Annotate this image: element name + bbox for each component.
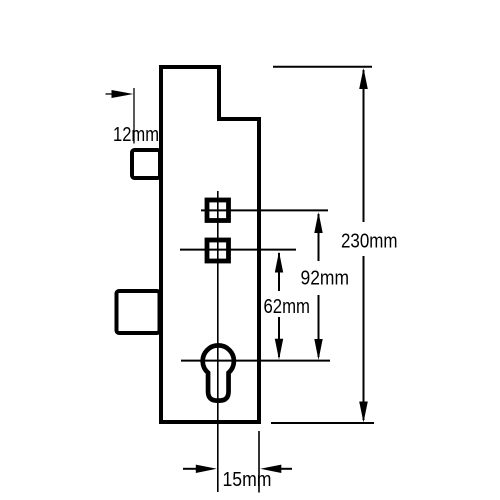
12mm extension line [133,88,135,144]
top extension line [273,66,372,68]
dimension line through spindle hole 1 [201,209,328,211]
bottom extension line [271,422,374,424]
12mm arrow [106,90,134,98]
dimension 62mm arrows [275,252,283,360]
dimension 92mm arrows [314,212,322,360]
vertical center line [217,191,219,492]
dimension line through euro cylinder center [181,360,330,362]
spindle hole 2 (square) [207,240,229,261]
right lower extension line [258,431,260,493]
spindle hole 1 (square) [207,200,229,221]
lock body outline [161,67,259,422]
latch bolt [132,150,160,178]
deadbolt [117,291,160,333]
svg-text:15mm: 15mm [223,469,272,491]
svg-text:62mm: 62mm [264,296,311,318]
dimension 15mm arrows [183,465,292,473]
svg-text:92mm: 92mm [301,267,350,289]
dimension line through spindle hole 2 [180,249,296,251]
dimension 230mm vertical line with arrowheads [359,68,368,423]
svg-text:12mm: 12mm [113,124,159,146]
svg-text:230mm: 230mm [341,231,398,253]
euro cylinder cutout [203,345,234,400]
